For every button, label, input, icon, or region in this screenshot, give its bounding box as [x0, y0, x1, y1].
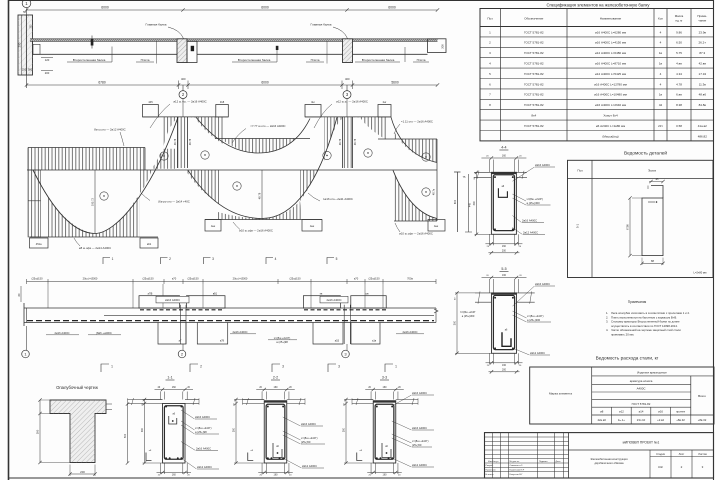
band2 span2 hatch below curve to bottom chord: [218, 201, 302, 220]
svg-text:двухбалочного обвязка: двухбалочного обвязка: [595, 461, 624, 465]
svg-text:Проверил: Проверил: [486, 470, 497, 472]
svg-text:ø10 ш.офк — 2ø16 А400С: ø10 ш.офк — 2ø16 А400С: [399, 232, 433, 236]
band3 right end break mark: [434, 308, 438, 323]
svg-text:1: 1: [395, 365, 397, 369]
svg-text:700а: 700а: [407, 277, 413, 281]
sheet frame left border: [8, 0, 10, 480]
svg-text:ø10 ш.офк — 2ø16 А400С: ø10 ш.офк — 2ø16 А400С: [239, 228, 273, 232]
svg-text:Каминский Т.Р: Каминский Т.Р: [510, 469, 525, 472]
band2 span2 upper shallow curve: [196, 117, 310, 153]
svg-text:ø6 А240С L=1в80 мм: ø6 А240С L=1в80 мм: [596, 124, 625, 128]
band2 node circle span3 upper: [422, 153, 430, 161]
band2 support3 bar cutoff verticals: [339, 117, 357, 168]
band3 top dimension line stirrup spacing: [27, 277, 437, 284]
section 1-1 left bent bar bracket: [146, 450, 152, 461]
svg-text:2ø16 А400С: 2ø16 А400С: [196, 447, 211, 451]
svg-text:КЖ: КЖ: [658, 465, 663, 469]
svg-text:Опалубочный чертеж: Опалубочный чертеж: [56, 385, 98, 390]
band2 span3 upper label: [394, 119, 433, 134]
svg-text:Плита: Плита: [141, 58, 150, 62]
svg-text:+2.в2: +2.в2: [657, 418, 664, 422]
svg-text:6.50: 6.50: [676, 41, 682, 45]
svg-text:x=(8ш.+2х0Г): x=(8ш.+2х0Г): [527, 314, 544, 318]
svg-text:2ø16 А400С: 2ø16 А400С: [326, 298, 341, 302]
svg-text:ГОСТ 5781-82: ГОСТ 5781-82: [524, 82, 544, 86]
band2 node circle support3 left: [323, 151, 331, 159]
band2 label span1 right cutoff: [141, 193, 190, 203]
steel consumption table texts: [549, 370, 707, 421]
band3 callout texts below beam span2: [230, 330, 297, 344]
svg-text:1ø16 ото—2ø11 А400С: 1ø16 ото—2ø11 А400С: [323, 197, 353, 201]
band3 support3 dashed top rebar: [304, 309, 386, 311]
band2 label span1 top band: [94, 128, 125, 146]
band2 span1 left anchorage hatched block: [28, 170, 41, 237]
svg-text:2ø16 А400С: 2ø16 А400С: [535, 163, 550, 167]
svg-text:6780: 6780: [626, 224, 630, 230]
section 4-4 bottom dimension: [485, 234, 522, 254]
svg-text:2ø16 А400С: 2ø16 А400С: [232, 330, 247, 334]
svg-text:прочее: прочее: [676, 409, 686, 413]
svg-text:4: 4: [275, 257, 277, 261]
svg-text:84.8в: 84.8в: [699, 103, 707, 107]
svg-text:(25+)50: (25+)50: [301, 440, 311, 444]
svg-text:ø8 ш.офк — 2ø14 А400С: ø8 ш.офк — 2ø14 А400С: [79, 246, 111, 250]
section 5-5 slab lines: [475, 291, 535, 303]
svg-text:Поз: Поз: [577, 169, 583, 173]
svg-text:300: 300: [441, 44, 445, 49]
section 4-4 bent bar dark detail: [498, 186, 507, 198]
svg-text:ГОСТ 5781-82: ГОСТ 5781-82: [524, 124, 544, 128]
svg-text:(25ш)150: (25ш)150: [368, 277, 380, 281]
svg-text:(25+)50: (25+)50: [412, 443, 422, 447]
svg-text:Изм.Кол.уч: Изм.Кол.уч: [488, 461, 498, 463]
svg-text:Капустин В.Г: Капустин В.Г: [510, 474, 524, 476]
svg-text:Второстепенная балка: Второстепенная балка: [73, 58, 106, 62]
svg-text:41а.в2: 41а.в2: [698, 124, 707, 128]
svg-text:принимать 20 мм.: принимать 20 мм.: [611, 332, 634, 336]
vedomost detaley table grid: [568, 160, 714, 277]
band3 support2 boxed callout: [156, 296, 189, 303]
svg-text:6000: 6000: [101, 6, 109, 10]
svg-text:42: 42: [659, 103, 663, 107]
svg-text:ø16 А400С L=10480 мм: ø16 А400С L=10480 мм: [594, 93, 627, 97]
svg-text:2ø16 А400С: 2ø16 А400С: [412, 391, 427, 395]
svg-text:87.3: 87.3: [699, 51, 705, 55]
svg-text:1ь.1+: 1ь.1+: [618, 418, 625, 422]
svg-text:2-2: 2-2: [273, 376, 278, 380]
svg-text:ГОСТ 5781-82: ГОСТ 5781-82: [524, 93, 544, 97]
svg-text:46.78: 46.78: [189, 138, 192, 145]
section 2-2 bottom dimension line: [258, 463, 293, 477]
band3 support3 bent bar U right: [351, 323, 380, 345]
svg-text:x=(8ш.+2х0Г): x=(8ш.+2х0Г): [301, 436, 318, 440]
svg-text:ø16 А400С L=4150 мм: ø16 А400С L=4150 мм: [595, 41, 626, 45]
svg-text:300: 300: [233, 427, 236, 432]
band1 bottom dimension line: [25, 77, 439, 89]
section 2-2 callout leaders: [283, 417, 325, 468]
svg-text:а (25+)300: а (25+)300: [527, 318, 541, 322]
section 2-2 beam outline: [264, 401, 287, 463]
svg-text:Всего: Всего: [698, 394, 706, 398]
band1 slab hatched strip: [30, 39, 438, 42]
band3 callout texts below beam span3: [396, 330, 424, 334]
band1 axis 2 circle: [179, 85, 187, 99]
svg-text:3: 3: [338, 365, 340, 369]
specification table header texts: [487, 14, 707, 22]
svg-text:аПВ: аПВ: [148, 293, 153, 296]
svg-text:ГОСТ 5781-82: ГОСТ 5781-82: [524, 103, 544, 107]
band2 support3 cap line and blocks: [305, 100, 391, 117]
svg-text:400: 400: [181, 77, 186, 81]
svg-text:3нг: 3нг: [311, 100, 315, 104]
svg-text:Плита: Плита: [417, 58, 426, 62]
band2 right bar detail: [454, 172, 472, 232]
band3 dimension drop lines: [48, 284, 383, 308]
svg-text:ГОСТ 5781-82: ГОСТ 5781-82: [524, 62, 544, 66]
svg-text:200: 200: [502, 250, 507, 253]
svg-text:160: 160: [383, 474, 388, 477]
svg-text:2ø16 А400С: 2ø16 А400С: [402, 330, 417, 334]
band2 span2 hatch between chord and shallow curve: [224, 139, 296, 154]
svg-text:9.86: 9.86: [676, 30, 682, 34]
svg-text:195.72: 195.72: [90, 197, 94, 205]
svg-text:+8в.32: +8в.32: [698, 418, 707, 422]
svg-text:Кол: Кол: [658, 17, 663, 21]
section 3-3 left bent bar bracket: [357, 450, 363, 461]
svg-text:6000: 6000: [261, 6, 269, 10]
svg-text:а (25+)98: а (25+)98: [276, 340, 288, 344]
svg-text:300: 300: [473, 201, 476, 206]
svg-text:Дата: Дата: [556, 461, 562, 463]
svg-text:2ø16 А400С: 2ø16 А400С: [412, 426, 427, 430]
section 3-3 top dimension line: [365, 386, 404, 400]
band2 label span1 bottom: [74, 238, 111, 250]
svg-text:48.в6: 48.в6: [699, 93, 707, 97]
section 3-3 slab lines: [352, 398, 418, 405]
svg-text:ø12 А400С L=5425 мм: ø12 А400С L=5425 мм: [595, 72, 626, 76]
svg-text:4.34: 4.34: [676, 72, 682, 76]
svg-text:вВ1: вВ1: [213, 293, 218, 296]
band1 secondary beam web bottom line: [33, 53, 178, 55]
svg-text:+8в.32: +8в.32: [676, 418, 685, 422]
svg-text:Эскиз: Эскиз: [648, 169, 657, 173]
svg-text:(6ø ро-ото — 2ø14 +40С: (6ø ро-ото — 2ø14 +40С: [158, 199, 190, 203]
svg-text:6.вв: 6.вв: [676, 93, 682, 97]
section 2-2 bent bar hook detail: [273, 443, 282, 458]
band1 top dimension line 6000+6000+6000: [25, 6, 439, 12]
band2 span1 parabola curve: [33, 117, 178, 233]
band1 label vtorostepennaya balka span1: [67, 47, 112, 63]
svg-text:ø12: ø12: [619, 409, 624, 413]
svg-text:Главная балка: Главная балка: [310, 23, 331, 27]
section 3-3 stirrup with rebar dots: [375, 404, 394, 459]
band1 label plita span1: [136, 41, 157, 63]
svg-text:x=(8ш.+2х0Г): x=(8ш.+2х0Г): [195, 426, 212, 430]
band2 node circle span1: [100, 192, 108, 200]
title block stamp outer frame: [485, 433, 714, 478]
section 2-2 title: [271, 376, 280, 381]
svg-text:а78: а78: [220, 340, 225, 343]
title block signature rows: [486, 460, 562, 476]
formwork height dimension: [36, 398, 71, 464]
svg-text:2нг: 2нг: [383, 100, 387, 104]
svg-text:≈7.77 ш.ото — 2ø16 А400С: ≈7.77 ш.ото — 2ø16 А400С: [250, 124, 285, 128]
svg-text:46.78: 46.78: [339, 138, 342, 145]
svg-text:500: 500: [36, 429, 40, 434]
band3 axis circle 1: [22, 326, 30, 358]
svg-text:42.вв: 42.вв: [699, 62, 707, 66]
steel consumption table grid: [530, 367, 714, 424]
band2 baseline chord: [27, 169, 437, 171]
svg-text:26.2+: 26.2+: [699, 41, 707, 45]
band2 span3 bottom chord and anchor box: [394, 220, 445, 232]
band2 span2 bottom chord and anchor boxes: [205, 220, 322, 232]
band2 support2 cap line and blocks: [143, 100, 229, 117]
band3 middle rebar line: [104, 314, 434, 316]
band2 span3 hatch between chord and curve: [394, 131, 437, 163]
svg-text:Наименование: Наименование: [600, 17, 622, 21]
band2 label span2 bottom: [233, 222, 273, 232]
band3 left end verticals: [18, 286, 27, 326]
svg-text:а1в: а1в: [372, 340, 377, 343]
section 1-1 top dimension line: [155, 386, 194, 400]
band3 beam top line: [24, 307, 436, 309]
svg-text:Изделия арматурные: Изделия арматурные: [637, 370, 667, 374]
band3 support3 axis verticals through beam: [344, 305, 350, 344]
svg-text:445: 445: [148, 100, 153, 104]
svg-text:3.: 3.: [606, 320, 609, 324]
band2 span2 hatch below baseline left: [186, 170, 219, 204]
band2 span1 hatch below curve to bottom chord: [47, 193, 140, 237]
svg-text:250: 250: [18, 42, 22, 47]
svg-text:ГОСТ 5781-82: ГОСТ 5781-82: [524, 72, 544, 76]
svg-text:а (25+)300: а (25+)300: [527, 201, 541, 205]
band3 tiny tick labels above support boxes: [148, 293, 370, 296]
band3 bottom rebar dashed: [27, 320, 434, 322]
band2 span2 lower parabola: [188, 117, 337, 218]
svg-text:8.38: 8.38: [676, 103, 682, 107]
svg-text:2ø16 А400С: 2ø16 А400С: [535, 282, 550, 286]
svg-text:5-5: 5-5: [501, 267, 506, 271]
band1 small dims at left end: [41, 58, 53, 76]
svg-text:x=(8ш.+2х0Г): x=(8ш.+2х0Г): [527, 197, 544, 201]
svg-text:2ø16 А400С: 2ø16 А400С: [165, 298, 180, 302]
band1 axis 3 circle: [343, 85, 351, 99]
svg-text:160: 160: [502, 274, 507, 277]
band1 label glavnaya balka span1: [145, 23, 183, 39]
band2 span2 center vertical with value: [257, 170, 262, 219]
svg-text:6780: 6780: [98, 80, 106, 84]
svg-text:а70: а70: [172, 277, 177, 281]
svg-text:(25ш)150: (25ш)150: [31, 277, 43, 281]
svg-text:x=(8ш.+2х0Г): x=(8ш.+2х0Г): [412, 439, 429, 443]
svg-text:8х4: 8х4: [531, 114, 536, 118]
svg-text:2ø12 А400С: 2ø12 А400С: [302, 464, 317, 468]
band3 axis circle 2: [178, 344, 186, 358]
svg-text:Стадия: Стадия: [656, 452, 665, 456]
svg-text:Обозначение: Обозначение: [524, 17, 543, 21]
svg-text:Лист: Лист: [679, 452, 685, 456]
svg-text:23т: 23т: [658, 124, 663, 128]
title block drawing name: [590, 457, 628, 465]
svg-text:ед. кг: ед. кг: [675, 18, 682, 22]
band2 span3 top chord line: [378, 138, 437, 140]
svg-text:200: 200: [45, 71, 50, 75]
band3 section flags below: [101, 364, 397, 372]
band1 label plita span2: [306, 41, 327, 63]
section 3-3 bottom dimension line: [367, 463, 402, 477]
section 2-2 height dimension: [233, 398, 265, 465]
sheet frame top border: [9, 0, 714, 2]
svg-text:5.75: 5.75: [676, 51, 682, 55]
section 1-1 beam outline: [163, 404, 186, 464]
svg-text:160: 160: [274, 386, 279, 389]
svg-text:20ш.(=)3000: 20ш.(=)3000: [83, 277, 98, 281]
svg-text:а (25+)98: а (25+)98: [195, 430, 207, 434]
svg-text:Главная балка: Главная балка: [145, 23, 166, 27]
band2 span3 right end vertical: [433, 139, 438, 221]
svg-text:1: 1: [112, 257, 114, 261]
svg-text:Подпись: Подпись: [539, 461, 549, 463]
svg-text:L=2ч80 мм: L=2ч80 мм: [694, 271, 707, 275]
svg-text:ø16 А400С L=2640 мм: ø16 А400С L=2640 мм: [595, 103, 626, 107]
formwork T-section: [50, 400, 106, 463]
section 2-2 top dimension line: [256, 386, 295, 400]
title block stamp left grid: [485, 433, 569, 478]
svg-text:2ø16 А400С: 2ø16 А400С: [54, 331, 69, 335]
svg-text:а70: а70: [354, 277, 359, 281]
band1 support axis3 hatched column: [343, 39, 353, 63]
svg-text:42а.в0: 42а.в0: [597, 418, 606, 422]
band3 support2 dashed top rebar: [140, 309, 224, 311]
svg-text:160: 160: [274, 474, 279, 477]
svg-text:200: 200: [502, 369, 507, 372]
svg-text:Спецификация элементов на желе: Спецификация элементов на железобетонную…: [547, 2, 651, 7]
svg-text:Второстепенная балка: Второстепенная балка: [362, 58, 395, 62]
band2 span3 lower parabola: [393, 170, 437, 218]
band2 span2 hatch below baseline right: [300, 170, 318, 201]
band1 beam end at wall: [33, 41, 41, 54]
band2 span1 hatch right tail below baseline: [140, 170, 152, 193]
svg-text:2ø12 А400С: 2ø12 А400С: [197, 465, 212, 469]
sheet frame right border: [713, 0, 715, 480]
band1 left wall support: [18, 15, 33, 75]
svg-text:ø16 А400С L=6280 мм: ø16 А400С L=6280 мм: [595, 30, 626, 34]
band1 label vtorostepennaya balka span3: [355, 47, 405, 62]
svg-text:23.9в: 23.9в: [699, 30, 707, 34]
section 5-5 top dimension: [482, 274, 527, 293]
band2 support2 bar cutoff verticals: [174, 117, 192, 168]
svg-text:Симонов а.З: Симонов а.З: [510, 465, 524, 467]
svg-text:160: 160: [383, 386, 388, 389]
svg-text:160: 160: [502, 364, 507, 367]
cross section 1-1 outer height dimension: [124, 402, 129, 464]
band3 support2 axis verticals through beam: [181, 305, 187, 344]
svg-text:46.78: 46.78: [354, 138, 357, 145]
section 1-1 bottom dimension line: [157, 463, 192, 477]
svg-text:1-1: 1-1: [167, 376, 172, 380]
section 2-2 stirrup with rebar dots: [266, 404, 285, 459]
svg-text:Плита: Плита: [311, 58, 320, 62]
svg-text:160: 160: [172, 474, 177, 477]
band3 support3 bent bar U left: [313, 323, 343, 345]
title block stage list cells: [656, 452, 707, 469]
svg-text:3: 3: [282, 365, 284, 369]
band1 support axis2 hatched column: [177, 39, 187, 63]
svg-text:арматура класса: арматура класса: [630, 379, 653, 383]
section 4-4 beam outline and stirrup: [491, 172, 516, 234]
svg-text:А400С: А400С: [637, 387, 646, 391]
band2 label span3 bottom: [395, 223, 433, 236]
svg-text:4.78: 4.78: [676, 82, 682, 86]
section 4-4 title: [499, 145, 508, 150]
svg-text:x=(8ш.+2х0Г): x=(8ш.+2х0Г): [274, 336, 291, 340]
band2 support2 hatch under cap: [163, 117, 223, 168]
band3 support2 upper bars box left: [139, 296, 180, 308]
title block stamp right grid: [569, 450, 714, 478]
svg-text:Примечания: Примечания: [628, 300, 647, 304]
band3 beam bottom line: [24, 322, 436, 324]
section 3-3 beam outline: [373, 401, 396, 463]
band2 support3 top label: [314, 100, 368, 128]
svg-text:2ø16 А400С: 2ø16 А400С: [301, 422, 316, 426]
section 1-1 slab lines: [128, 398, 200, 405]
section 1-1 title: [166, 376, 175, 381]
band2 label span2 right cutoff: [308, 193, 353, 201]
svg-text:ø12 А400С L=6480 мм: ø12 А400С L=6480 мм: [595, 51, 626, 55]
band2 span1 bottom chord and end boxes: [30, 237, 159, 248]
svg-text:2ø16 А400С: 2ø16 А400С: [522, 219, 537, 223]
svg-text:451а: 451а: [36, 242, 42, 246]
svg-text:4-4: 4-4: [501, 145, 506, 149]
specification table rows: [489, 30, 707, 138]
sheet frame bottom border: [9, 477, 714, 479]
vedomost detaley dimensions: [626, 196, 665, 265]
band2 axis3 stub to cap: [346, 99, 348, 117]
svg-text:46.78: 46.78: [174, 138, 177, 145]
section 5-5 bottom dimension: [486, 353, 523, 373]
svg-text:120: 120: [45, 58, 50, 62]
svg-text:Поз: Поз: [487, 17, 493, 21]
section 5-5 title: [500, 267, 509, 272]
svg-text:3: 3: [212, 257, 214, 261]
svg-text:2ø12 А400С: 2ø12 А400С: [523, 231, 538, 235]
section 3-3 height dimension: [343, 398, 374, 465]
svg-text:Второстепенная балка: Второстепенная балка: [238, 58, 271, 62]
band3 support2 bent bar U left: [158, 323, 186, 345]
svg-text:№ док-та.: № док-та.: [510, 460, 520, 463]
section 4-4 slab lines: [474, 171, 527, 179]
svg-text:Ведомость деталей: Ведомость деталей: [624, 150, 667, 156]
svg-text:6000: 6000: [388, 6, 396, 10]
svg-text:600: 600: [454, 199, 457, 204]
band1 axis 1 circle: [22, 0, 31, 8]
band1 label plita span3: [413, 58, 429, 62]
svg-text:Марка элемента: Марка элемента: [549, 392, 572, 396]
band3 support3 upper bars box right: [351, 296, 386, 308]
svg-text:400: 400: [345, 77, 350, 81]
band1 axis 1 line: [26, 8, 28, 88]
svg-text:200: 200: [80, 470, 85, 474]
section 3-3 callout leaders: [392, 391, 434, 467]
section 4-4 callouts: [512, 163, 555, 235]
band1 label vtorostepennaya balka span2: [232, 46, 278, 62]
band3 support2 bent bar U right: [197, 323, 227, 345]
svg-text:250: 250: [22, 68, 27, 72]
svg-text:ø16 А400С L=12780 мм: ø16 А400С L=12780 мм: [594, 82, 627, 86]
svg-text:(25ш)150: (25ш)150: [187, 277, 199, 281]
svg-text:≈1.11 ото — 2ø16 А400С: ≈1.11 ото — 2ø16 А400С: [401, 119, 433, 123]
